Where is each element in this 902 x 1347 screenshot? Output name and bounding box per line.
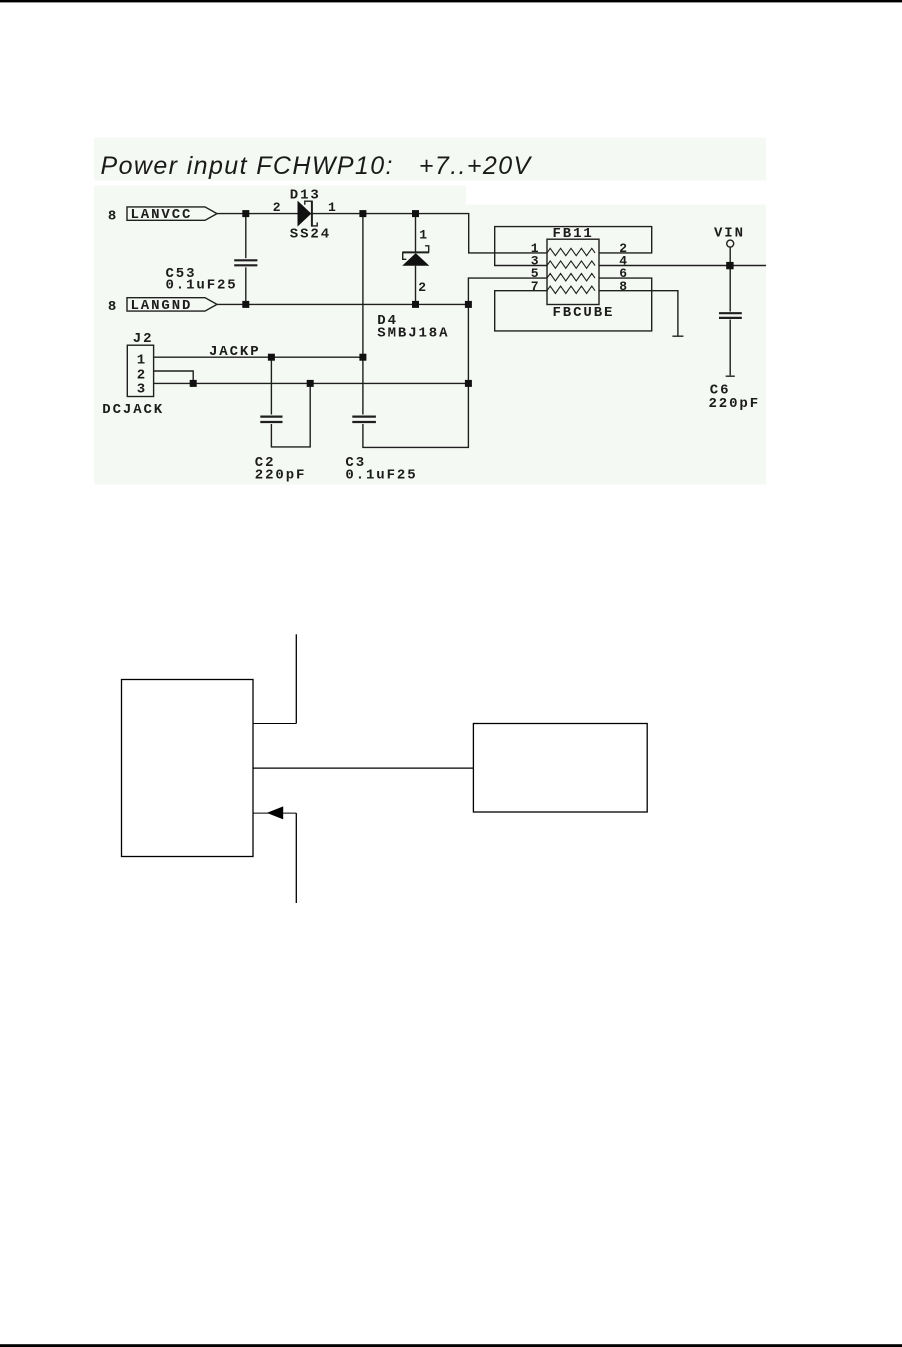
svg-text:3: 3: [137, 381, 145, 397]
svg-text:J2: J2: [133, 331, 154, 347]
svg-text:220pF: 220pF: [255, 467, 307, 483]
svg-text:LANVCC: LANVCC: [131, 207, 193, 223]
svg-text:FBCUBE: FBCUBE: [553, 305, 615, 321]
svg-text:8: 8: [108, 208, 116, 224]
svg-text:1: 1: [328, 200, 336, 215]
svg-text:8: 8: [619, 279, 627, 294]
svg-text:SMBJ18A: SMBJ18A: [377, 325, 449, 341]
svg-text:7: 7: [531, 279, 539, 294]
svg-text:2: 2: [418, 280, 426, 295]
svg-text:SS24: SS24: [290, 227, 331, 243]
svg-text:0.1uF25: 0.1uF25: [166, 277, 238, 293]
svg-text:DCJACK: DCJACK: [102, 402, 164, 418]
svg-text:LANGND: LANGND: [131, 298, 193, 314]
svg-text:0.1uF25: 0.1uF25: [345, 467, 417, 483]
svg-text:1: 1: [419, 228, 427, 243]
svg-text:8: 8: [108, 299, 116, 315]
svg-text:Power input FCHWP10: +7..+20: Power input FCHWP10: +7..+20V: [101, 152, 533, 180]
svg-text:JACKP: JACKP: [209, 344, 261, 360]
svg-text:1: 1: [137, 352, 145, 368]
svg-text:FB11: FB11: [553, 226, 594, 242]
svg-text:2: 2: [273, 200, 281, 215]
svg-text:D13: D13: [290, 188, 321, 204]
svg-text:VIN: VIN: [714, 226, 745, 242]
svg-text:220pF: 220pF: [709, 396, 761, 412]
